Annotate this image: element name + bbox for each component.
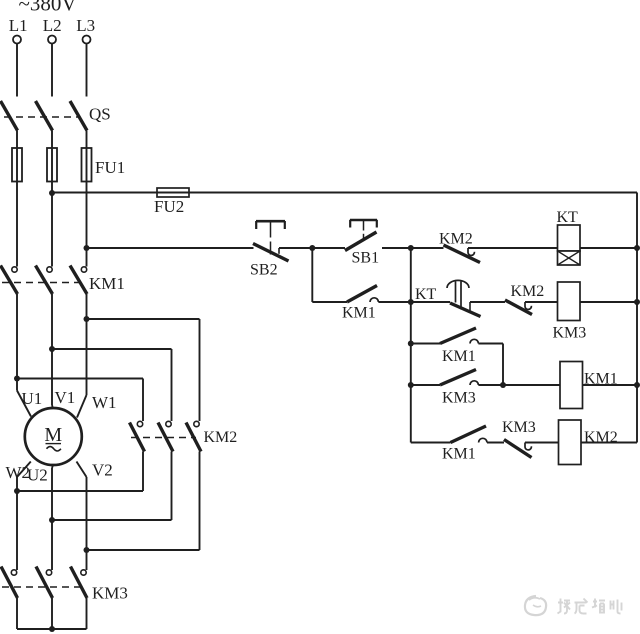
svg-text:W1: W1	[92, 393, 117, 412]
svg-text:KM3: KM3	[92, 584, 128, 603]
svg-text:U2: U2	[27, 466, 48, 485]
svg-text:KM2: KM2	[439, 231, 473, 248]
svg-text:L1: L1	[9, 16, 28, 35]
svg-text:~380V: ~380V	[19, 0, 77, 16]
svg-text:KM1: KM1	[442, 348, 476, 365]
svg-text:KT: KT	[415, 286, 437, 303]
svg-text:KM3: KM3	[502, 419, 536, 436]
svg-text:KM1: KM1	[89, 274, 125, 293]
svg-text:FU2: FU2	[154, 197, 184, 216]
svg-text:KM1: KM1	[342, 305, 376, 322]
svg-text:SB1: SB1	[352, 250, 380, 267]
svg-text:U1: U1	[22, 389, 43, 408]
svg-text:KM2: KM2	[584, 429, 618, 446]
svg-text:L2: L2	[43, 16, 62, 35]
svg-text:FU1: FU1	[95, 158, 125, 177]
svg-text:KM3: KM3	[553, 325, 587, 342]
svg-text:SB2: SB2	[250, 262, 278, 279]
svg-text:V2: V2	[92, 461, 113, 480]
svg-text:QS: QS	[89, 105, 111, 124]
svg-text:KM1: KM1	[442, 446, 476, 463]
svg-text:M: M	[44, 424, 62, 446]
svg-text:KT: KT	[557, 209, 579, 226]
svg-text:V1: V1	[55, 388, 76, 407]
svg-text:KM1: KM1	[584, 371, 618, 388]
svg-text:KM2: KM2	[511, 283, 545, 300]
svg-text:KM2: KM2	[204, 429, 238, 446]
svg-text:L3: L3	[76, 16, 95, 35]
svg-text:KM3: KM3	[442, 390, 476, 407]
